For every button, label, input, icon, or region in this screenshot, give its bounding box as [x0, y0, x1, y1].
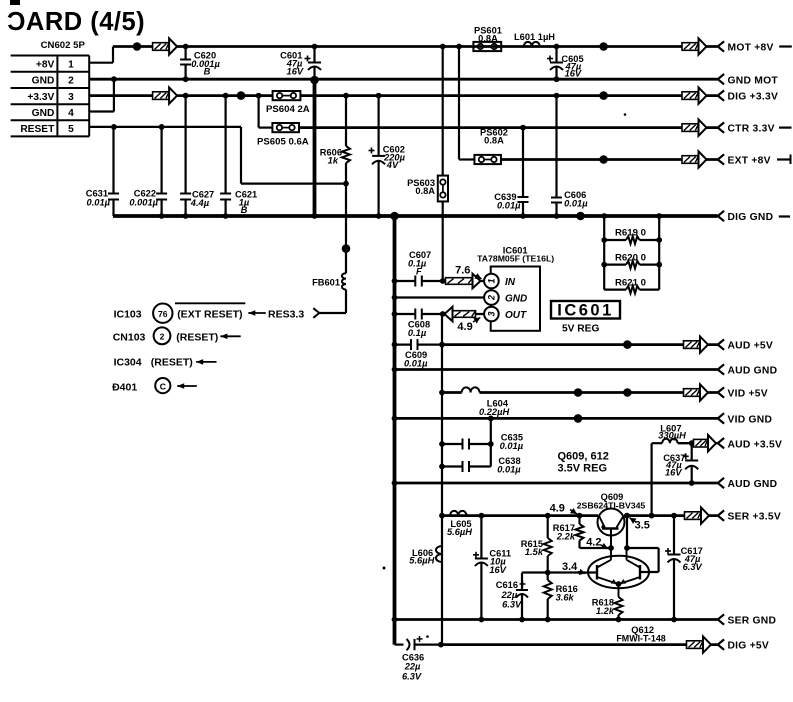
wire AUD GND rail [392, 367, 718, 373]
svg-text:AUD GND: AUD GND [728, 479, 778, 490]
svg-text:6.3V: 6.3V [402, 671, 422, 681]
svg-text:C616: C616 [496, 580, 518, 590]
dash after DIG GND [779, 215, 790, 217]
svg-text:0.01µ: 0.01µ [404, 359, 428, 369]
fuse PS601 0.8A [473, 26, 502, 52]
output EXT +8V at y=159.5 [682, 151, 771, 167]
output DIG +5V at y=644.6 [687, 636, 770, 652]
ferrite bead FB601 [312, 184, 346, 313]
node GND bus on DIG GND bold [390, 212, 399, 221]
svg-text:330µH: 330µH [658, 431, 686, 441]
node pin5 junction C631 [111, 124, 117, 130]
svg-text:0.8A: 0.8A [478, 34, 498, 44]
svg-text:GND: GND [505, 294, 527, 305]
capacitor C617 47µ 6.3V [665, 513, 703, 623]
connector CN602 5P [11, 40, 90, 136]
svg-text:DIG +3.3V: DIG +3.3V [728, 92, 779, 103]
resistor R606 1k [320, 93, 350, 187]
svg-text:76: 76 [158, 309, 168, 319]
svg-text:3: 3 [487, 311, 497, 316]
svg-text:GND: GND [32, 76, 55, 87]
svg-text:Q609, 612: Q609, 612 [558, 451, 609, 463]
node bold via VIDGND [574, 414, 583, 423]
measurement 4.9 at Q609 emitter [550, 503, 577, 515]
svg-text:3.4: 3.4 [562, 561, 578, 573]
noise marks [383, 113, 627, 638]
label Q609 612 3.5V REG [558, 451, 609, 475]
svg-text:VID GND: VID GND [728, 415, 773, 426]
wire GND bus vertical [393, 216, 397, 645]
svg-text:IC601: IC601 [557, 302, 614, 320]
svg-text:B: B [204, 67, 211, 77]
node C601 bold junction on GND rail [310, 76, 319, 85]
svg-text:3.5V REG: 3.5V REG [558, 462, 608, 474]
node pin4/pin2 junction [111, 76, 117, 82]
svg-text:1.5k: 1.5k [525, 547, 544, 557]
svg-text:4.4µ: 4.4µ [190, 198, 210, 208]
wire RESET line from pin5 [89, 127, 346, 184]
IC601 boxed designator [551, 301, 620, 335]
resistor R618 1.2k [592, 597, 623, 622]
inductor L605 5.6µH [447, 511, 472, 537]
wire GND MOT rail [89, 78, 717, 81]
inductor L607 330µH [658, 424, 686, 444]
svg-text:0.01µ: 0.01µ [500, 441, 524, 451]
svg-text:(RESET): (RESET) [176, 331, 218, 343]
svg-text:SER GND: SER GND [728, 616, 777, 627]
svg-text:2: 2 [487, 295, 497, 301]
svg-text:EXT +8V: EXT +8V [728, 156, 771, 167]
output DIG +3.3V at y=95.6 [682, 87, 778, 103]
resistor R615 1.5k [521, 513, 552, 573]
node Q609 collector junction [624, 513, 630, 519]
wire 5V output vertical [441, 314, 443, 645]
svg-text:1: 1 [68, 59, 74, 70]
svg-text:CTR 3.3V: CTR 3.3V [728, 124, 775, 135]
svg-text:CN103: CN103 [113, 331, 146, 343]
svg-text:RESET: RESET [20, 124, 55, 135]
svg-text:0.001µ: 0.001µ [129, 198, 158, 208]
svg-text:GND: GND [32, 108, 55, 119]
connector arrow OUT [445, 307, 476, 322]
inductor L601 1µH [514, 32, 555, 47]
svg-text:4.9: 4.9 [550, 503, 565, 515]
output DIG GND at y=216 [718, 211, 774, 223]
output VID +5V at y=392.5 [684, 384, 768, 400]
capacitor C639 0.01µ [494, 125, 528, 219]
svg-text:AUD +5V: AUD +5V [728, 341, 774, 352]
svg-text:0.1µ: 0.1µ [408, 328, 427, 338]
svg-text:0.8A: 0.8A [415, 186, 435, 196]
svg-text:+3.3V: +3.3V [27, 92, 54, 103]
resistor R616 3.6k [544, 570, 578, 623]
title text BOARD (4/5) [7, 0, 145, 36]
svg-text:C: C [160, 381, 166, 391]
svg-text:5V REG: 5V REG [562, 324, 599, 335]
node heavy vertical on DIG GND [312, 213, 318, 219]
output AUD +5V at y=344.6 [684, 336, 774, 352]
chevron RES3.3 input [313, 308, 319, 318]
svg-text:CN602 5P: CN602 5P [41, 40, 86, 51]
node bold via DIG3.3 rail [599, 91, 608, 100]
output CTR 3.3V at y=127.6 [682, 119, 775, 135]
measurement 3.4 at Q612 base [562, 561, 586, 575]
svg-text:16V: 16V [565, 69, 582, 79]
svg-text:R620 0: R620 0 [615, 252, 646, 263]
svg-text:5: 5 [68, 124, 74, 135]
svg-text:PS605 0.6A: PS605 0.6A [257, 137, 309, 148]
svg-text:FB601: FB601 [312, 278, 340, 288]
output AUD GND at y=483 [718, 478, 778, 490]
svg-text:0.22µH: 0.22µH [479, 407, 509, 417]
wire EXT +8V branch [459, 47, 475, 160]
node pin5 junction C622 [159, 124, 165, 130]
wire EXT +8V rail [501, 158, 718, 161]
svg-text:IC103: IC103 [114, 309, 142, 321]
svg-text:B: B [241, 205, 248, 215]
dash after CTR 3.3V [779, 126, 792, 128]
svg-text:0.01µ: 0.01µ [87, 198, 111, 208]
node bold via on +3.3V rail [237, 91, 246, 100]
node bold vias VID5V [574, 388, 632, 397]
capacitor C627 4.4µ [180, 93, 214, 219]
output SER GND at y=619.5 [718, 614, 776, 626]
wire DIG GND rail [113, 214, 718, 218]
wire Q609 collector to node [626, 516, 628, 548]
output AUD GND at y=369.5 [718, 364, 778, 376]
svg-text:OUT: OUT [505, 310, 527, 321]
svg-text:16V: 16V [287, 66, 304, 76]
node PS603 top on +8V rail [440, 44, 446, 50]
svg-text:R621 0: R621 0 [615, 277, 646, 288]
wire VID +5V rail [439, 390, 717, 396]
fuse PS605 0.6A [257, 123, 309, 148]
wire DIG +5V rail [438, 642, 718, 648]
svg-text:(EXT RESET): (EXT RESET) [177, 309, 242, 321]
node EXT branch on +8V rail [456, 44, 462, 50]
svg-text:IC304: IC304 [114, 357, 142, 369]
resistor R617 2.2k [553, 513, 611, 548]
wire VID GND rail [392, 416, 718, 422]
svg-text:F: F [416, 266, 422, 276]
svg-text:4.9: 4.9 [457, 321, 472, 333]
capacitor C637 47µ 16V [663, 440, 698, 486]
svg-text:7.6: 7.6 [455, 265, 470, 277]
svg-text:0.01µ: 0.01µ [497, 465, 521, 475]
svg-text:4: 4 [68, 108, 74, 119]
node bold via on +8V rail [133, 42, 142, 51]
capacitor C611 10µ 16V [473, 513, 511, 623]
svg-text:0.01µ: 0.01µ [497, 200, 521, 210]
svg-text:2: 2 [68, 76, 74, 87]
capacitor C621 1µ B [220, 93, 257, 219]
svg-text:16V: 16V [665, 467, 682, 477]
measurement 4.9 at pin OUT [457, 318, 480, 334]
wire 3.4 node [522, 571, 597, 573]
output SER +3.5V at y=515.6 [685, 507, 781, 523]
wire +8V rail [113, 45, 718, 48]
svg-text:SER +3.5V: SER +3.5V [728, 512, 781, 523]
svg-text:AUD +3.5V: AUD +3.5V [728, 439, 783, 450]
measurement 7.6 at pin IN [455, 265, 481, 279]
connector arrow IN [446, 274, 481, 289]
capacitor C622 0.001µ [129, 127, 167, 219]
svg-text:0.8A: 0.8A [484, 136, 504, 146]
node bold via FB601 line [342, 244, 351, 253]
svg-text:5.6µH: 5.6µH [447, 527, 472, 537]
wire AUD GND 2 rail [392, 480, 718, 486]
capacitor C631 0.01µ [86, 127, 119, 216]
node bold via MOT rail [599, 42, 608, 51]
svg-text:Đ401: Đ401 [112, 381, 137, 393]
capacitor C602 220µ 4V [369, 93, 406, 219]
svg-text:AUD GND: AUD GND [728, 366, 778, 377]
connector arrow on +8V rail [153, 38, 178, 54]
node +3.3V to PS605 branch [256, 93, 262, 99]
wire AUD +5V rail [442, 343, 718, 346]
wire2 GND to pin2 [392, 295, 485, 301]
node bold via EXT rail [599, 155, 608, 164]
capacitor C601 47µ 16V [280, 44, 321, 80]
svg-text:ƆARD (4/5): ƆARD (4/5) [7, 8, 145, 36]
svg-text:IN: IN [505, 277, 516, 288]
fuse PS604 2A [266, 91, 310, 115]
capacitor C635 0.01µ [439, 432, 524, 451]
capacitor C638 0.01µ [439, 456, 521, 475]
svg-text:1: 1 [487, 278, 497, 283]
wire SER GND rail [392, 617, 718, 623]
transistor Q609 2SB624TI-BV345 [577, 492, 646, 548]
capacitor C605 47µ 16V [547, 44, 584, 83]
svg-text:GND MOT: GND MOT [728, 75, 779, 86]
wire CTR 3.3V rail [259, 96, 718, 128]
svg-text:VID +5V: VID +5V [728, 389, 768, 400]
svg-text:5.6µH: 5.6µH [409, 555, 434, 565]
wire C635/C638 right vertical [490, 418, 492, 466]
svg-text:6.3V: 6.3V [502, 600, 522, 610]
svg-text:3: 3 [68, 92, 74, 103]
svg-text:DIG GND: DIG GND [728, 212, 774, 223]
connector arrow on +3.3V rail [153, 87, 178, 103]
output VID GND at y=418.4 [718, 413, 772, 425]
svg-text:22µ: 22µ [404, 662, 421, 672]
node A left dot [608, 545, 614, 551]
IC601 label TA78M05F [477, 246, 554, 264]
measurement 4.2 at node A [586, 537, 608, 549]
annotation IC304 RESET [114, 357, 217, 369]
capacitor C616 22µ 6.3V [496, 573, 528, 623]
capacitor C609 0.01µ [392, 339, 445, 368]
svg-text:22µ: 22µ [500, 590, 517, 600]
wire pin1 to +8V rail [89, 47, 113, 63]
wire SER +3.5V rail [439, 513, 717, 519]
svg-text:(RESET): (RESET) [151, 357, 193, 369]
annotation D401 C [112, 378, 197, 393]
transistor Q612 dual [588, 548, 649, 597]
measurement 3.5 at Q609 collector [630, 518, 650, 532]
dash after EXT +8V [777, 155, 791, 165]
svg-text:1k: 1k [328, 156, 339, 166]
svg-text:6.3V: 6.3V [683, 562, 703, 572]
svg-text:L601 1µH: L601 1µH [514, 32, 555, 42]
svg-text:3.5: 3.5 [635, 520, 650, 532]
op-amp regulator IC601 body [484, 267, 540, 331]
output AUD +3.5V at y=443.2 [694, 435, 783, 451]
svg-text:16V: 16V [489, 565, 506, 575]
svg-text:RES3.3: RES3.3 [268, 309, 304, 321]
svg-text:4V: 4V [386, 160, 399, 170]
svg-text:FMWI-T-148: FMWI-T-148 [616, 633, 665, 643]
capacitor C608 0.1µ on OUT wire [392, 309, 485, 338]
svg-text:PS604 2A: PS604 2A [266, 104, 310, 115]
svg-text:MOT +8V: MOT +8V [728, 43, 774, 54]
wire pin4 to GND rail [89, 79, 114, 111]
capacitor C620 0.001µ B [180, 44, 220, 83]
inductor L606 5.6µH [409, 546, 442, 565]
svg-text:0.01µ: 0.01µ [564, 198, 588, 208]
output GND MOT at y=79.2 [718, 74, 779, 86]
capacitor C606 0.01µ [551, 93, 588, 219]
label Q612 FMWI-T-148 [616, 625, 665, 644]
svg-text:DIG +5V: DIG +5V [728, 641, 770, 652]
annotation IC103 76 EXT RESET [114, 303, 305, 323]
svg-text:2: 2 [160, 332, 165, 342]
svg-text:TA78M05F (TE16L): TA78M05F (TE16L) [477, 254, 554, 264]
wire DIG +3.3V rail [89, 94, 717, 97]
wire AUD +3.5V line [649, 443, 718, 518]
fuse PS603 0.8A [407, 47, 448, 282]
capacitor C636 22µ 6.3V [395, 636, 441, 681]
fuse PS602 0.8A [474, 128, 508, 165]
svg-text:R619 0: R619 0 [615, 228, 646, 239]
resistors R619 R620 R621 0 ohm network [601, 213, 662, 293]
annotation CN103 2 RESET [113, 327, 241, 344]
node bold via DIG GND rail [576, 212, 585, 221]
svg-text:1.2k: 1.2k [596, 606, 615, 616]
svg-text:3.6k: 3.6k [556, 593, 575, 603]
inductor L604 0.22µH [462, 387, 510, 417]
output MOT +8V at y=46.5 [682, 38, 774, 54]
svg-text:+8V: +8V [36, 59, 55, 70]
dash after MOT +8V [779, 45, 792, 47]
wire right collector loop [627, 548, 659, 572]
node bold via AUD5V [623, 340, 632, 349]
svg-text:2.2k: 2.2k [556, 532, 576, 542]
wire heavy GND vertical [313, 80, 317, 216]
node A right dot [624, 545, 630, 551]
svg-text:4.2: 4.2 [586, 537, 601, 549]
capacitor C607 0.1µ F on IN wire [392, 250, 485, 287]
